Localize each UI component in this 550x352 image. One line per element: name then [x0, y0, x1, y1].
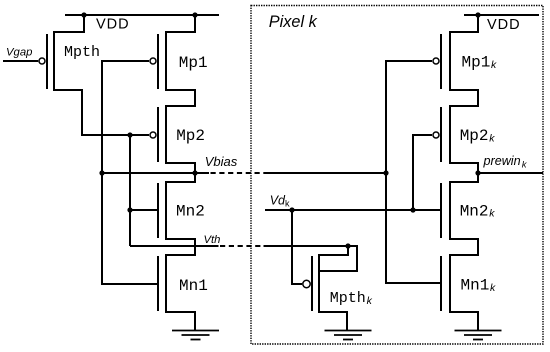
wire Vbias to pixel	[264, 172, 387, 174]
transistor Mn2	[158, 181, 166, 240]
svg-text:k: k	[367, 295, 373, 307]
wire Mn1 source to ground	[166, 312, 195, 331]
transistor Mp2k	[433, 105, 450, 164]
wire VDD rail left	[65, 14, 219, 16]
svg-text:Vd: Vd	[270, 194, 286, 208]
wire Mpth drain to Mp2 gate	[54, 90, 149, 135]
svg-text:Mpth: Mpth	[330, 290, 366, 307]
svg-text:Mp1: Mp1	[179, 54, 208, 72]
wire Vth to Mpthk drain wrap	[264, 246, 358, 271]
wire Mp1 source to VDD	[166, 15, 195, 32]
node Vth line	[130, 245, 219, 247]
svg-text:Vbias: Vbias	[205, 154, 238, 169]
transistor Mpthk	[303, 254, 319, 313]
wire VDD rail right	[464, 14, 539, 16]
svg-text:k: k	[489, 132, 495, 144]
svg-text:k: k	[285, 198, 290, 208]
wire Mpthk source to Vth	[319, 246, 348, 255]
wire Vd to Mpthk gate	[292, 210, 302, 284]
junction VDD-Mpth	[81, 12, 86, 17]
junction VDD-Mp1k	[475, 12, 480, 17]
ground left	[172, 331, 219, 340]
svg-text:Vgap: Vgap	[6, 47, 32, 59]
wire Mp1k drain to Mp2k source	[450, 90, 478, 106]
junction VDD-Mp1	[192, 12, 197, 17]
Pixel k dashed box	[251, 6, 543, 345]
junction Vbias-Mp2	[192, 170, 197, 175]
wire Mp2k gate to Vd	[413, 135, 432, 210]
wire Mp1 gate / Mn1 gate to Vbias	[102, 61, 157, 284]
svg-text:Mn1: Mn1	[179, 277, 208, 295]
svg-text:Mp1: Mp1	[462, 54, 491, 72]
wire Mn2k source to Mn1k drain	[450, 239, 478, 255]
wire Mp2 drain to Vbias	[166, 163, 195, 173]
svg-text:Mn2: Mn2	[460, 202, 489, 220]
wire Mn1k source to ground	[450, 312, 478, 331]
transistor Mpth	[39, 31, 54, 91]
wire Mpth source to VDD	[54, 15, 84, 32]
svg-text:VDD: VDD	[96, 17, 130, 33]
svg-text:Mpth: Mpth	[64, 44, 100, 61]
wire Mn2 gate	[130, 209, 157, 211]
wire Mn2 drain to Vbias	[166, 173, 195, 182]
wire Vth dashed	[220, 245, 264, 247]
wire Mp2k drain to prewin	[450, 163, 478, 173]
junction Vbias vertical	[99, 170, 104, 175]
transistor Mn1	[158, 254, 166, 313]
svg-text:prewin: prewin	[483, 154, 521, 168]
junction Vd-Mpthk	[289, 207, 294, 212]
svg-text:k: k	[522, 160, 528, 171]
transistor Mn1k	[441, 254, 450, 313]
junction Vth-Mpthk	[345, 243, 350, 248]
wire Mp1 drain to Mp2 source	[166, 90, 195, 106]
svg-text:k: k	[489, 208, 495, 220]
wire Vbias dashed	[211, 172, 264, 174]
junction Vd-Mp2k gate	[410, 207, 415, 212]
transistor Mp2	[150, 105, 166, 164]
transistor Mn2k	[441, 181, 450, 240]
svg-text:k: k	[490, 282, 496, 294]
wire gate branch down to Vth	[129, 135, 131, 246]
wire Mpthk drain to ground	[319, 312, 347, 331]
node Vd line	[265, 209, 440, 211]
svg-text:Mp2: Mp2	[460, 127, 489, 145]
svg-text:Pixel k: Pixel k	[269, 13, 318, 31]
node prewin line	[478, 172, 543, 174]
ground right	[455, 331, 502, 340]
junction Mn2 gate	[127, 207, 132, 212]
junction prewin	[475, 170, 480, 175]
svg-text:Mn2: Mn2	[176, 202, 205, 220]
node Vbias line	[102, 172, 209, 174]
junction Mpth drain branch	[127, 132, 132, 137]
wire Mn2 source to Mn1 drain	[166, 239, 195, 255]
wire Mn2k drain to prewin	[450, 173, 478, 182]
wire Vgap input	[3, 60, 38, 62]
ground middle	[325, 331, 372, 340]
svg-text:VDD: VDD	[487, 17, 521, 33]
svg-text:Mp2: Mp2	[176, 127, 205, 145]
transistor Mp1	[150, 31, 166, 91]
transistor Mp1k	[433, 31, 450, 91]
svg-text:k: k	[491, 59, 497, 71]
wire Mp1k source to VDD	[450, 15, 478, 32]
svg-text:Vth: Vth	[204, 234, 221, 246]
wire Mp1k gate / Mn1k gate to Vbias	[386, 61, 440, 283]
svg-text:Mn1: Mn1	[461, 277, 490, 295]
junction Vbias-gates	[383, 170, 388, 175]
